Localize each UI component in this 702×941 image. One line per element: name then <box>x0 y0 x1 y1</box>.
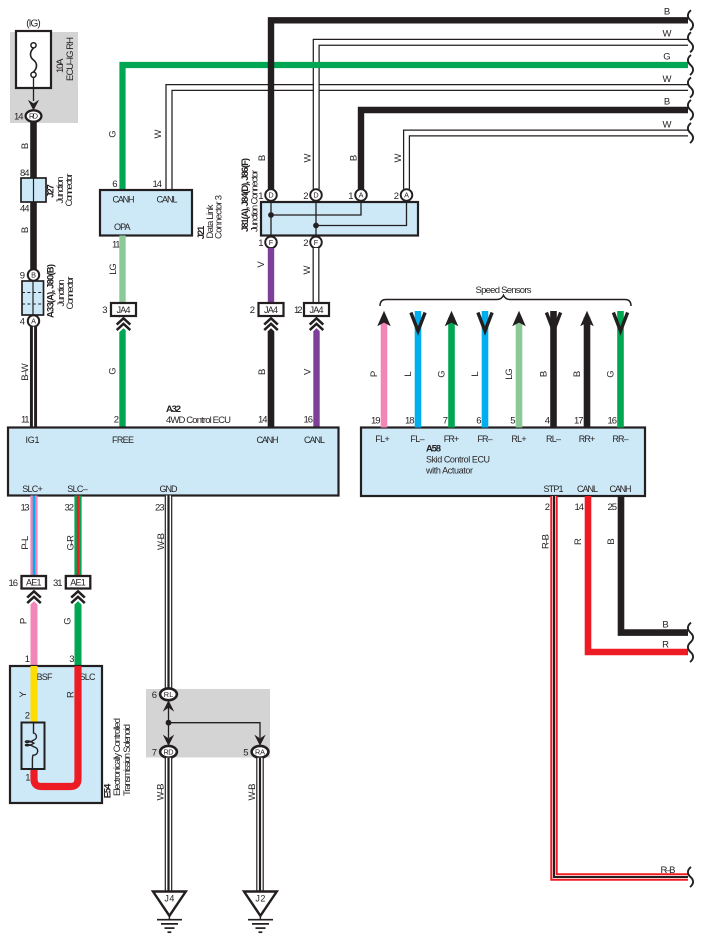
svg-text:12: 12 <box>294 305 303 316</box>
continuation squiggle wire B top <box>688 10 693 30</box>
pin 5 RA <box>243 747 248 758</box>
label B sensor 1 <box>539 371 550 377</box>
svg-text:4WD Control ECU: 4WD Control ECU <box>166 415 231 426</box>
pin 3 E54 <box>69 654 74 665</box>
svg-text:14: 14 <box>14 112 24 123</box>
svg-text:2: 2 <box>303 238 308 249</box>
wire fuse to connector RD <box>33 77 35 101</box>
wire W F2 to JA4 <box>313 248 320 304</box>
label J27 <box>46 184 57 198</box>
label R at right end <box>662 640 669 651</box>
label L sensor 1 <box>403 371 414 376</box>
svg-text:G: G <box>108 130 119 137</box>
svg-text:P: P <box>369 371 380 377</box>
label P <box>19 618 30 624</box>
label (IG) <box>26 19 41 30</box>
connector JA4 2 <box>259 303 284 316</box>
wire P sensor FL+ <box>381 318 388 428</box>
label W near A2 <box>393 153 404 162</box>
svg-text:CANL: CANL <box>304 435 325 445</box>
pin 18 <box>405 416 415 427</box>
label B <box>20 143 31 149</box>
svg-text:B: B <box>20 227 31 233</box>
svg-text:Y: Y <box>18 691 29 698</box>
arrow down into RD <box>28 100 39 111</box>
node A of A33 <box>28 315 39 326</box>
pin 1 A1 <box>348 191 353 202</box>
label A33(A), J80(B) <box>46 264 57 318</box>
arrow down into RA <box>254 735 265 746</box>
wire R-B STP1 to bottom right <box>554 496 688 877</box>
svg-text:W: W <box>303 153 314 162</box>
label R rotated <box>573 538 584 545</box>
label B top wire 1 <box>664 7 670 18</box>
svg-text:L: L <box>403 371 414 376</box>
svg-text:11: 11 <box>112 240 121 251</box>
svg-text:W: W <box>302 265 313 274</box>
pin 6 of J21 <box>112 179 117 190</box>
svg-text:RL+: RL+ <box>511 434 526 444</box>
pin 84 of J27 <box>20 168 30 179</box>
connector AE1 2 <box>66 576 91 589</box>
wire B J27 to A33 <box>30 202 37 270</box>
pin 25 CANH <box>608 502 618 513</box>
pin 1 solenoid bottom <box>25 773 30 784</box>
svg-text:2: 2 <box>114 415 119 426</box>
label Electronically Controlled <box>112 718 123 796</box>
svg-text:1: 1 <box>348 191 353 202</box>
svg-text:1: 1 <box>25 654 30 665</box>
pin 32 of A32 bottom <box>65 503 75 514</box>
svg-text:G: G <box>437 370 448 377</box>
svg-text:32: 32 <box>65 503 75 514</box>
svg-text:R: R <box>662 640 669 651</box>
pin 31 AE1 2 <box>53 578 63 589</box>
svg-text:44: 44 <box>20 204 30 215</box>
svg-text:25: 25 <box>608 502 618 513</box>
svg-text:G: G <box>108 367 119 374</box>
relay internal wiring <box>166 700 260 738</box>
wire Y inside E54 <box>31 666 38 722</box>
svg-text:FR–: FR– <box>477 434 492 444</box>
label G top wire 3 <box>663 51 670 62</box>
wire G sensor FR+ <box>448 318 455 428</box>
brace speed sensors <box>380 295 631 306</box>
connector RL <box>160 688 177 700</box>
svg-text:Junction Connector: Junction Connector <box>250 170 261 232</box>
svg-text:RA: RA <box>255 748 265 757</box>
svg-text:2: 2 <box>545 502 550 513</box>
label Transmission Solenoid <box>122 724 133 796</box>
svg-text:FREE: FREE <box>112 435 134 445</box>
svg-text:G: G <box>663 51 670 62</box>
label G-R <box>66 535 77 551</box>
solenoid E54 box <box>10 666 102 803</box>
svg-text:19: 19 <box>371 416 381 427</box>
label Y <box>18 691 29 698</box>
svg-text:2: 2 <box>303 191 308 202</box>
label W top wire 2 <box>663 29 672 40</box>
svg-text:4: 4 <box>545 416 550 427</box>
chevron down RR- <box>613 313 627 332</box>
label Junction (A33) <box>56 280 67 307</box>
pin 2 JA4 2 <box>250 305 255 316</box>
svg-text:18: 18 <box>405 416 415 427</box>
wire B-W A33 to A32 IG1 <box>30 327 37 428</box>
svg-text:P–L: P–L <box>20 536 31 550</box>
svg-text:W: W <box>393 153 404 162</box>
svg-text:(IG): (IG) <box>26 19 41 30</box>
pin 11 of A32 <box>21 415 30 426</box>
svg-text:B: B <box>20 143 31 149</box>
label P sensor <box>369 371 380 377</box>
pin 1 F1 <box>258 238 263 249</box>
label W near D2 <box>303 153 314 162</box>
solenoid coil box <box>22 723 45 770</box>
label B 2 <box>20 227 31 233</box>
svg-text:7: 7 <box>152 747 157 758</box>
label V <box>256 261 267 268</box>
label B near D1 <box>257 155 268 161</box>
label LG sensor <box>504 368 515 380</box>
svg-text:V: V <box>256 261 267 268</box>
label G <box>63 617 74 624</box>
pin 2 solenoid <box>25 711 30 722</box>
junction connector J27 <box>21 178 46 202</box>
svg-text:A33(A), J80(B): A33(A), J80(B) <box>46 264 57 318</box>
label B at right end <box>662 620 668 631</box>
label B-W <box>20 363 31 381</box>
svg-text:14: 14 <box>153 179 163 190</box>
svg-text:B: B <box>572 371 583 377</box>
pin 14 of RD <box>14 112 24 123</box>
svg-text:R: R <box>573 538 584 545</box>
ground J2 <box>244 892 277 933</box>
pin 14 of A32 <box>258 415 268 426</box>
svg-text:W–B: W–B <box>247 784 258 801</box>
label W-B at RD <box>156 784 167 801</box>
svg-text:Connector 3: Connector 3 <box>214 195 225 239</box>
pin 16 AE1 1 <box>9 578 19 589</box>
wire V F1 to JA4 <box>268 248 274 304</box>
wire B JA4 to A32 CANH <box>268 316 275 428</box>
svg-text:17: 17 <box>574 416 584 427</box>
svg-text:SLC: SLC <box>80 672 97 682</box>
wire B from J81 pin 1D to top right <box>271 20 688 189</box>
svg-text:2: 2 <box>25 711 30 722</box>
pin 4 <box>545 416 550 427</box>
svg-text:Transmission Solenoid: Transmission Solenoid <box>122 724 133 796</box>
arrow up into RL <box>163 700 174 711</box>
label G sensor 2 <box>606 370 617 377</box>
svg-text:R–B: R–B <box>661 865 676 876</box>
pin 2 F2 <box>303 238 308 249</box>
svg-text:G: G <box>606 370 617 377</box>
svg-text:3: 3 <box>102 305 107 316</box>
svg-text:16: 16 <box>9 578 19 589</box>
svg-text:G–R: G–R <box>66 535 77 551</box>
pin 1 D1 <box>258 191 263 202</box>
svg-text:B: B <box>664 7 670 18</box>
connector RD <box>26 110 42 121</box>
svg-text:31: 31 <box>53 578 63 589</box>
label G mid <box>108 367 119 374</box>
wire B from J81 pin 1A to top right <box>361 110 688 189</box>
label L sensor 2 <box>470 371 481 376</box>
svg-text:FL–: FL– <box>410 434 424 444</box>
chevron down FL- <box>411 313 425 332</box>
svg-text:B: B <box>31 271 36 280</box>
junction connector J81 box <box>261 201 418 237</box>
svg-text:16: 16 <box>608 416 618 427</box>
svg-text:CANH: CANH <box>113 195 135 205</box>
svg-text:A: A <box>359 191 364 200</box>
svg-text:LG: LG <box>108 263 119 275</box>
svg-text:W: W <box>663 74 672 85</box>
svg-text:A58: A58 <box>426 444 441 455</box>
svg-text:JA4: JA4 <box>264 305 278 315</box>
pin 7 <box>443 416 448 427</box>
node D1 of J81 <box>265 189 277 201</box>
svg-text:SLC+: SLC+ <box>22 484 43 494</box>
label J81(A), J84(D), J86(F) <box>240 158 251 232</box>
label Connector (J27) <box>64 174 75 207</box>
svg-text:A32: A32 <box>166 404 181 415</box>
pin 14 CANL <box>575 502 585 513</box>
wire W CANL-J21 to top right <box>166 85 688 190</box>
wire G CANH-J21 to top right <box>123 65 689 190</box>
wire R CANL to right <box>588 496 688 652</box>
svg-text:W–B: W–B <box>156 533 167 550</box>
svg-text:6: 6 <box>152 690 157 701</box>
arrow up FL+ <box>377 311 391 327</box>
wire P AE1 to E54 pin1 <box>31 589 38 666</box>
pin 17 <box>574 416 584 427</box>
pin 12 JA4 3 <box>294 305 303 316</box>
svg-text:GND: GND <box>160 484 179 494</box>
svg-text:CANL: CANL <box>577 484 598 494</box>
svg-text:R–B: R–B <box>541 534 552 549</box>
svg-text:B: B <box>662 620 668 631</box>
svg-text:LG: LG <box>504 368 515 380</box>
junction connector A33(A) J80(B) <box>22 281 44 315</box>
continuation squiggle wire G <box>688 55 693 75</box>
svg-text:B–W: B–W <box>20 363 31 381</box>
svg-text:D: D <box>268 191 273 200</box>
continuation squiggle wire W 4 <box>688 78 693 98</box>
svg-text:R: R <box>66 691 77 698</box>
svg-text:W–B: W–B <box>156 784 167 801</box>
label W top wire 6 <box>663 119 672 130</box>
svg-text:CANH: CANH <box>610 484 632 494</box>
svg-text:W: W <box>663 119 672 130</box>
svg-text:B: B <box>257 155 268 161</box>
svg-text:V: V <box>303 368 314 375</box>
svg-text:SLC–: SLC– <box>67 484 88 494</box>
label W <box>302 265 313 274</box>
svg-text:L: L <box>470 371 481 376</box>
arrow down into RD <box>163 735 174 746</box>
svg-text:FR+: FR+ <box>444 434 460 444</box>
svg-text:ECU–IG RH: ECU–IG RH <box>65 37 76 81</box>
svg-text:13: 13 <box>21 503 30 514</box>
label B top wire 5 <box>664 96 670 107</box>
pin 4 of A33 <box>20 317 25 328</box>
data link connector J21 box (OPA) <box>100 190 192 236</box>
pin 5 <box>510 416 515 427</box>
pin 14 of J21 <box>153 179 163 190</box>
svg-text:CANH: CANH <box>257 435 279 445</box>
svg-text:AE1: AE1 <box>26 578 42 588</box>
label B rotated <box>606 538 617 544</box>
svg-text:6: 6 <box>112 179 117 190</box>
label 10A <box>55 58 66 73</box>
chevron down RL- <box>546 313 560 332</box>
label 4WD Control ECU <box>166 415 231 426</box>
wire G JA4 to A32 FREE <box>119 316 125 428</box>
connector JA4 1 <box>111 303 136 316</box>
wire LG J21 pin11 to JA4 <box>119 236 125 305</box>
svg-text:6: 6 <box>476 416 481 427</box>
label R <box>66 691 77 698</box>
pin 11 of J21 <box>112 240 121 251</box>
svg-text:OPA: OPA <box>114 222 131 232</box>
label V mid <box>303 368 314 375</box>
chevron down FR- <box>478 313 492 332</box>
svg-text:J2: J2 <box>255 894 265 904</box>
node B of A33 <box>28 269 39 280</box>
svg-text:BSF: BSF <box>37 672 54 682</box>
wire R inside E54 <box>34 666 78 787</box>
svg-text:B: B <box>539 371 550 377</box>
pin 2 STP1 <box>545 502 550 513</box>
svg-text:RD: RD <box>29 112 38 121</box>
pin 23 of A32 bottom <box>155 503 165 514</box>
wire W-B RA to ground J2 <box>256 758 264 892</box>
wire G-R SLC- to AE1 <box>74 496 81 577</box>
chevron AE1 1 <box>27 591 41 603</box>
svg-text:B: B <box>664 96 670 107</box>
wire L sensor FL- <box>415 311 422 428</box>
pin 16 of A32 <box>304 415 314 426</box>
svg-text:W: W <box>153 129 164 138</box>
wire B CANH to right <box>621 496 688 633</box>
node F2 of J81 <box>310 237 322 249</box>
node A1 of J81 <box>355 189 367 201</box>
label ECU-IG RH <box>65 37 76 81</box>
label R-B at right end <box>661 865 676 876</box>
svg-text:CANL: CANL <box>157 195 178 205</box>
pin 9 of A33 <box>20 271 25 282</box>
label G upper <box>108 130 119 137</box>
svg-text:A: A <box>404 191 409 200</box>
wire LG sensor RL+ <box>516 318 523 428</box>
wire W-B RD to ground J4 <box>165 758 173 892</box>
svg-text:RL–: RL– <box>546 434 561 444</box>
svg-text:RR+: RR+ <box>579 434 596 444</box>
wire L sensor FR- <box>482 311 489 428</box>
svg-text:D: D <box>313 191 318 200</box>
node F1 of J81 <box>265 237 277 249</box>
chevron JA4 3 <box>310 318 324 330</box>
svg-text:with Actuator: with Actuator <box>425 466 473 476</box>
ground J4 <box>153 892 186 933</box>
svg-text:RR–: RR– <box>612 434 628 444</box>
pin 2 of A32 <box>114 415 119 426</box>
svg-text:1: 1 <box>25 773 30 784</box>
label LG <box>108 263 119 275</box>
connector JA4 3 <box>304 303 329 316</box>
ECU A58 box <box>361 428 645 497</box>
continuation squiggle wire B 5 <box>688 100 693 120</box>
label Speed Sensors <box>476 285 532 296</box>
label W top wire 4 <box>663 74 672 85</box>
svg-text:Skid Control ECU: Skid Control ECU <box>426 455 490 465</box>
pin 6 <box>476 416 481 427</box>
label Connector (A33) <box>65 277 76 310</box>
svg-text:B: B <box>606 538 617 544</box>
label B near A1 <box>349 155 360 161</box>
label B mid <box>257 369 268 375</box>
pin 19 <box>371 416 381 427</box>
pin 7 RD <box>152 747 157 758</box>
label J21 <box>196 225 207 239</box>
label R-B rotated <box>541 534 552 549</box>
svg-text:16: 16 <box>304 415 314 426</box>
ECU A32 box <box>8 428 339 496</box>
pin 2 A2 <box>394 191 399 202</box>
wire V JA4 to A32 CANL <box>313 316 319 428</box>
svg-text:F: F <box>269 238 274 247</box>
connector AE1 1 <box>22 576 47 589</box>
svg-text:7: 7 <box>443 416 448 427</box>
pin 1 E54 <box>25 654 30 665</box>
svg-text:2: 2 <box>394 191 399 202</box>
label W-B at RA <box>247 784 258 801</box>
wire B fuse to J27 <box>30 122 37 178</box>
svg-text:RL: RL <box>164 690 174 699</box>
pin 6 RL <box>152 690 157 701</box>
svg-text:J4: J4 <box>164 894 174 904</box>
continuation squiggle B right <box>688 623 693 643</box>
node A2 of J81 <box>401 189 413 201</box>
continuation squiggle R-B right <box>688 867 693 887</box>
wire G AE1 to E54 pin3 <box>75 589 82 666</box>
label Junction Connector (J81) <box>250 170 261 232</box>
continuation squiggle wire W 2 <box>688 32 693 52</box>
pin 13 of A32 bottom <box>21 503 30 514</box>
chevron JA4 2 <box>264 318 278 330</box>
svg-text:Connector: Connector <box>65 277 76 310</box>
svg-text:STP1: STP1 <box>544 484 564 494</box>
svg-text:FL+: FL+ <box>375 434 390 444</box>
wire W-B GND to relay RL <box>165 496 173 689</box>
svg-text:B: B <box>349 155 360 161</box>
label B sensor 2 <box>572 371 583 377</box>
label E54 <box>103 783 114 798</box>
svg-text:2: 2 <box>250 305 255 316</box>
connector RD <box>160 746 177 758</box>
pin 2 D2 <box>303 191 308 202</box>
wire G sensor RR- <box>617 311 624 428</box>
label P-L <box>20 536 31 550</box>
chevron AE1 2 <box>71 591 85 603</box>
svg-text:A: A <box>31 317 36 326</box>
label Connector 3 <box>214 195 225 239</box>
svg-text:IG1: IG1 <box>26 435 40 445</box>
svg-text:9: 9 <box>20 271 25 282</box>
label Data Link <box>205 204 216 238</box>
